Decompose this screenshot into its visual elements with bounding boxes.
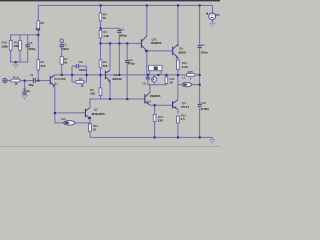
wire parallel RC bottom branch right (84, 75, 87, 82)
wire Q5 emitter to Qout base (146, 51, 148, 75)
wire parallel RC top branch right (79, 66, 87, 75)
svg-text:1k5: 1k5 (61, 117, 66, 121)
wire Rbox2 stub down (165, 84, 167, 85)
wire input source to R1A (7, 80, 11, 82)
svg-text:2SB631: 2SB631 (150, 94, 161, 98)
wire Rup to output dot (177, 70, 179, 75)
wire C7 top (199, 5, 201, 45)
wire Q6 collector col (149, 85, 151, 93)
window bottom divider line (0, 146, 220, 147)
transistor Q6 small PNP (cluster) (144, 93, 150, 106)
capacitor C-par plates (parallel RC top branch, vertical) (75, 64, 77, 68)
wire driver base Q5 (101, 42, 142, 44)
svg-text:PCY4: PCY4 (181, 105, 189, 109)
node rail Qout collector (177, 4, 179, 6)
resistor R8 body (37, 21, 40, 31)
svg-text:MJE3055: MJE3055 (92, 112, 105, 116)
wire Rlow to bottom rail (177, 120, 179, 138)
wire R6 column down to Rmid (100, 43, 102, 59)
wire VAS right of R-par box (195, 74, 200, 76)
svg-text:1k: 1k (14, 82, 18, 86)
inductor oval L1 lower left (64, 121, 75, 126)
wire speaker col down (199, 85, 201, 104)
svg-text:C7: C7 (201, 43, 205, 47)
inductor oval L2 output (182, 82, 192, 86)
svg-text:100n: 100n (201, 51, 208, 55)
svg-text:56p: 56p (29, 83, 34, 87)
node VAS C3 chain (61, 74, 63, 76)
svg-text:100n: 100n (62, 47, 69, 51)
svg-text:R1A: R1A (13, 75, 19, 79)
wire box above stub left (148, 71, 150, 75)
svg-text:10k: 10k (35, 27, 40, 31)
transistor Qout NPN (172, 44, 178, 58)
transistor Q2 driver (105, 70, 110, 84)
node Q1 emitter Q3 base (54, 112, 56, 114)
node parallel RC right (86, 74, 88, 76)
wire Q1 emitter column (54, 86, 56, 123)
svg-text:C3: C3 (63, 43, 67, 47)
node rail C7 (199, 4, 201, 6)
node bottom rail speaker (199, 136, 201, 138)
capacitor C7 plates (198, 45, 202, 47)
transistor Q5 predriver (141, 36, 147, 53)
wire top rail (38, 5, 212, 20)
ground input cap (22, 95, 27, 99)
svg-text:100n: 100n (79, 68, 86, 72)
resistor R3 47k body (37, 60, 40, 70)
wire C4 bottom (118, 34, 120, 75)
resistor Rlow body (emitter R bottom) (177, 116, 180, 123)
node C3 port circle stub (61, 42, 63, 44)
node bottom rail Rlow (177, 136, 179, 138)
wire R6 column top (100, 5, 102, 13)
resistor Rbox2 body (cluster right) (165, 77, 168, 84)
svg-text:500p: 500p (29, 47, 36, 51)
wire C6 bottom (147, 79, 149, 85)
node input shunt (24, 80, 26, 82)
wire cluster bottom (148, 84, 167, 86)
svg-text:Q1: Q1 (54, 82, 58, 86)
resistor Rmid body (99, 60, 102, 68)
svg-text:470p: 470p (128, 62, 135, 66)
wire Rmid to VAS (100, 68, 102, 75)
node VAS cluster left (147, 74, 149, 76)
wire R1A to C1 (20, 80, 33, 82)
wire C2 branch down (24, 81, 26, 92)
wire R3 bottom to signal (37, 70, 39, 81)
node bottom rail Rmid2 (154, 136, 156, 138)
capacitor C5 plates (26, 44, 30, 46)
capacitor C3 plates (60, 44, 64, 46)
wire bottom rail (90, 137, 212, 139)
meter circle in cluster (152, 77, 157, 82)
wire left bias node H2 (11, 35, 39, 41)
svg-text:220: 220 (158, 118, 163, 122)
node lower rail Q2 emitter (109, 98, 111, 100)
trimmer box dark marks (154, 67, 158, 71)
resistor Rup 0.33 body (emitter R top) (177, 60, 180, 70)
svg-text:C8: C8 (79, 60, 83, 64)
wire Q5E junction to Qout bar (147, 50, 173, 52)
svg-text:R8: R8 (40, 21, 44, 25)
node VAS cluster right (157, 74, 159, 76)
resistor R9 body (99, 88, 102, 96)
svg-text:R5: R5 (79, 77, 83, 81)
transistor Q3 NPN lower left (85, 108, 90, 120)
node parallel RC left (71, 74, 73, 76)
wire VAS horizontal main (55, 74, 187, 76)
svg-text:47k: 47k (40, 64, 45, 68)
capacitor C2 plates (input shunt) (22, 91, 26, 93)
svg-text:BD139: BD139 (113, 77, 123, 81)
svg-text:1k: 1k (103, 16, 107, 20)
wire cluster circle stubs (153, 75, 155, 77)
wire C3 to R7 (61, 47, 63, 56)
resistor Rmid2 body (153, 115, 156, 122)
wire R7 to VAS node (61, 64, 63, 75)
svg-text:1k: 1k (64, 61, 68, 65)
wire RE bottom to rail (89, 132, 91, 138)
wire Q3 emitter col (89, 118, 91, 124)
node Q1 base bias (37, 80, 39, 82)
svg-text:C5: C5 (29, 41, 33, 45)
node VAS Rbox2 top (165, 74, 167, 76)
wire Rmid2 to rail (154, 122, 156, 138)
node output speaker top (199, 74, 201, 76)
capacitor Ccomp plates (125, 60, 129, 62)
ground divider (13, 64, 18, 68)
svg-text:10: 10 (169, 80, 173, 84)
svg-text:C10: C10 (201, 101, 207, 105)
node Q5 emitter Qout base (146, 50, 148, 52)
node bias divider top (37, 34, 39, 36)
wire Rmid2 column (154, 105, 156, 114)
wire output col to oval corner (178, 75, 182, 85)
wire R6b to base node (100, 38, 102, 43)
node Q3 emitter arrow (89, 117, 91, 119)
svg-text:1n: 1n (27, 89, 31, 93)
wire Q1E corner to oval (55, 122, 64, 124)
port circle node C3 top (60, 39, 64, 43)
resistor R2 22k body (19, 41, 22, 51)
resistor R1A 1k body (horizontal) (11, 79, 20, 82)
svg-text:1.2k: 1.2k (103, 34, 109, 38)
wire speaker col bottom (199, 107, 201, 137)
capacitor C1 plates (series, vertical plates) (32, 78, 34, 83)
svg-text:Q2: Q2 (94, 107, 98, 111)
capacitor C6 plates (cluster) (146, 76, 150, 78)
svg-text:500p: 500p (120, 33, 127, 37)
wire Q2 emitter (109, 84, 111, 99)
wire C1 to Q1 base (35, 80, 50, 82)
node VAS C4 bottom (118, 74, 120, 76)
node C9 top junction (126, 42, 128, 44)
svg-text:0.33: 0.33 (182, 65, 188, 69)
svg-text:2N3055: 2N3055 (151, 41, 162, 45)
wire Q2 collector (109, 43, 111, 70)
svg-text:L1: L1 (182, 76, 186, 80)
svg-text:100: 100 (90, 92, 95, 96)
wire R8 column mid (37, 30, 39, 59)
wire Q5 collector (146, 5, 148, 35)
node VAS R column (100, 74, 102, 76)
svg-text:22k: 22k (14, 44, 19, 48)
wire parallel RC bottom branch left (72, 75, 76, 82)
svg-text:B008: B008 (179, 51, 187, 55)
svg-text:4700u: 4700u (201, 107, 210, 111)
node Qpower base Rmid2 (154, 104, 156, 106)
wire R2 top stub (19, 35, 21, 41)
svg-text:1k: 1k (80, 84, 84, 88)
transistor Q1 BC546B (50, 75, 55, 87)
wire Qout emitter to Rup (177, 57, 179, 60)
wire V1 bottom to gnd (211, 20, 213, 23)
svg-text:0.5: 0.5 (181, 117, 186, 121)
wire Q3 base (55, 112, 86, 114)
wire C4 stub (101, 28, 120, 30)
wire Rbox2 stub up (165, 75, 167, 77)
svg-text:Q7: Q7 (147, 99, 151, 103)
window top border (0, 0, 220, 1)
wire Qpower collector (177, 85, 179, 100)
resistor R6b 1.2k body (99, 30, 102, 38)
wire C2 to gnd2 (24, 94, 26, 95)
wire comp cap top (126, 43, 128, 60)
resistor R7 1k body (60, 57, 63, 65)
wire gnd1 stub (15, 62, 17, 63)
voltage source V1 supply circle (209, 13, 216, 20)
wire VAS to R9 (100, 75, 102, 88)
node divider ground (15, 61, 17, 63)
svg-text:C4: C4 (120, 28, 124, 32)
node speaker oval branch (199, 84, 201, 86)
svg-text:100k: 100k (1, 44, 8, 48)
wire C6 col (147, 75, 149, 77)
wire Q6 emitter down (150, 104, 172, 106)
capacitor Cout plates (198, 103, 202, 105)
ground V1 supply (210, 23, 215, 27)
resistor Rpar-box body (above VAS wire in cluster) (149, 65, 162, 70)
resistor R6a body (99, 13, 102, 21)
svg-text:35V: 35V (215, 13, 220, 17)
wire Qout collector (177, 5, 179, 46)
svg-text:0R5: 0R5 (187, 70, 193, 74)
wire R6a to R6b (100, 21, 102, 30)
node lower rail C9 bottom (126, 98, 128, 100)
node R6a R6b junction (100, 27, 102, 29)
voltage source VG1 input circle (3, 78, 8, 83)
wire divider ground rail (11, 47, 28, 62)
node C4 top junction (118, 42, 120, 44)
wire oval out to speaker col (192, 75, 200, 85)
svg-text:10: 10 (93, 128, 97, 132)
ground bottom right (210, 140, 215, 144)
wire C7 bottom (199, 48, 201, 75)
wire circle bottom stub (153, 82, 155, 85)
wire Q3 collector col (90, 99, 101, 108)
resistor Rpar 1k body (horizontal, below VAS wire) (76, 81, 84, 84)
resistor R-0R5 body (output series, horizontal) (187, 74, 195, 77)
node rail Q5 collector (146, 4, 148, 6)
svg-text:BC546B: BC546B (54, 77, 65, 81)
wire oval to Q3 emitter col (75, 122, 90, 124)
svg-text:C6: C6 (142, 81, 146, 85)
svg-text:7k5: 7k5 (103, 64, 108, 68)
node rail R6 (100, 4, 102, 6)
svg-text:C1: C1 (30, 73, 34, 77)
wire parallel RC top branch (72, 66, 76, 75)
transistor Qpower PNP output (172, 100, 178, 110)
wire box above stub right (160, 71, 162, 75)
node output emitter R (177, 74, 179, 76)
resistor RE body (Q3 emitter) (89, 124, 92, 132)
wire C5 top stub (27, 35, 29, 45)
node driver base left (100, 42, 102, 44)
wire R9 to lower rail (101, 96, 145, 100)
wire R2 bottom (19, 50, 21, 62)
wire Qpower emitter to Rlow (177, 109, 179, 113)
resistor R1 100k body (9, 41, 12, 51)
wire comp cap bottom (126, 63, 128, 99)
node Q2 collector junction (109, 42, 111, 44)
capacitor C4 plates (117, 30, 121, 32)
